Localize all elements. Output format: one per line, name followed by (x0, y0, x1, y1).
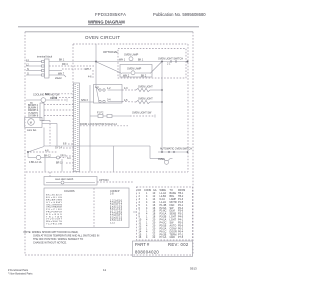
svg-text:O bk: O bk (52, 97, 58, 100)
svg-text:WH 1: WH 1 (119, 59, 126, 62)
svg-text:F1 F2: F1 F2 (97, 111, 104, 114)
svg-text:COLORS: COLORS (64, 190, 75, 193)
svg-text:G: G (27, 73, 29, 76)
svg-text:OR 9: OR 9 (60, 154, 66, 157)
svg-text:WIRING DIAGRAM: WIRING DIAGRAM (88, 19, 125, 24)
svg-text:OVEN LIGHT: OVEN LIGHT (138, 85, 153, 88)
svg-text:REV: 002: REV: 002 (168, 242, 189, 247)
svg-text:YL=YELLOW: YL=YELLOW (46, 224, 63, 226)
svg-text:808004020: 808004020 (135, 250, 159, 255)
svg-text:OPTIONAL: OPTIONAL (103, 50, 119, 54)
svg-text:OVEN LIGHT: OVEN LIGHT (138, 98, 153, 101)
svg-text:BR 15: BR 15 (56, 162, 63, 165)
svg-text:WH 2: WH 2 (123, 75, 130, 78)
svg-text:BK 1: BK 1 (138, 59, 144, 62)
svg-text:BK 2: BK 2 (141, 75, 147, 78)
svg-text:BK-12: BK-12 (44, 155, 51, 158)
svg-text:DOOR LOCK MOTOR N DLM 4-2: DOOR LOCK MOTOR N DLM 4-2 (80, 123, 117, 126)
svg-text:P7-5: P7-5 (178, 236, 184, 239)
svg-text:2-1-5: 2-1-5 (110, 223, 116, 225)
svg-text:RD 4: RD 4 (62, 63, 68, 66)
svg-text:4 BK-12 1A: 4 BK-12 1A (29, 161, 42, 164)
svg-text:AUTOMATIC OVEN SWITCH: AUTOMATIC OVEN SWITCH (160, 148, 192, 151)
svg-text:Publication No. 5995608680: Publication No. 5995608680 (153, 12, 206, 17)
svg-text:OVEN LIGHT SWITCH: OVEN LIGHT SWITCH (158, 57, 183, 60)
svg-text:OVEN CIRCUIT: OVEN CIRCUIT (85, 35, 120, 40)
svg-text:WH-7: WH-7 (85, 68, 92, 71)
svg-text:N: N (27, 68, 29, 71)
svg-text:GND: GND (170, 236, 176, 239)
svg-text:* Non-Illustrated Parts: * Non-Illustrated Parts (8, 273, 33, 276)
svg-text:GY/WH 6: GY/WH 6 (28, 114, 39, 117)
svg-text:OVEN LAMP: OVEN LAMP (124, 54, 139, 57)
svg-text:456123: 456123 (110, 219, 123, 222)
svg-text:oven door switch: oven door switch (55, 178, 74, 181)
svg-text:P7-1A: P7-1A (160, 236, 167, 239)
svg-text:GY 14: GY 14 (55, 146, 63, 149)
svg-text:CHANGE WITHOUT NOTICE.: CHANGE WITHOUT NOTICE. (33, 242, 67, 245)
svg-text:OVEN LAMP: OVEN LAMP (127, 67, 142, 70)
svg-text:OPTION: OPTION (99, 179, 109, 182)
svg-text:N/W 3: N/W 3 (81, 99, 88, 102)
svg-text:M: M (30, 122, 32, 125)
svg-text:conv fan: conv fan (27, 129, 37, 132)
svg-text:FPDS3085KFA: FPDS3085KFA (95, 12, 126, 17)
svg-text:PART #: PART # (135, 242, 150, 247)
svg-text:BK 1: BK 1 (59, 59, 65, 62)
svg-text:5913: 5913 (190, 266, 197, 270)
svg-text:shield: shield (55, 77, 62, 80)
svg-text:B/W: B/W (45, 93, 50, 96)
svg-text:OVEN LIGHT SW: OVEN LIGHT SW (132, 111, 152, 114)
svg-text:terminal block: terminal block (37, 56, 53, 59)
svg-text:11: 11 (103, 268, 106, 272)
